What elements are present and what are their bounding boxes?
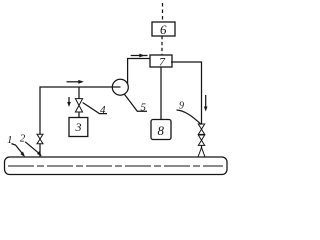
wire: branch down to valve 4: [78, 87, 80, 99]
box 6: [152, 22, 175, 36]
wire: left riser upper segment: [40, 87, 121, 134]
svg-text:5: 5: [141, 101, 147, 113]
leader line for label 5: [124, 94, 147, 112]
svg-text:9: 9: [179, 101, 184, 112]
leader line for label 1: [12, 144, 26, 157]
valve 4: [75, 99, 82, 112]
valve 2: [37, 134, 43, 144]
wire: box 7 to right riser: [171, 62, 202, 124]
svg-text:1: 1: [7, 134, 13, 146]
leader line for label 2: [25, 142, 42, 156]
valve 9 lower: [198, 135, 204, 145]
leader line for label 9: [177, 110, 202, 125]
dashed signal line between box 6 and box 7: [161, 36, 163, 55]
box 7: [150, 55, 172, 67]
wire: left riser lower segment: [39, 144, 41, 157]
svg-text:6: 6: [160, 22, 167, 37]
valve 9 upper: [198, 124, 204, 134]
leader line for label 4: [83, 103, 107, 114]
wire: valve stack to nozzle: [201, 145, 203, 148]
pipe P1 (main pipeline): [5, 157, 228, 175]
flow arrow A1 (rightward, above main line): [67, 80, 84, 84]
svg-text:2: 2: [20, 133, 26, 145]
svg-text:4: 4: [100, 104, 106, 116]
flow arrow A4 (downward, right of right riser): [204, 95, 208, 112]
wire: circle to upper line: [128, 59, 150, 84]
svg-text:7: 7: [159, 55, 166, 69]
svg-text:8: 8: [158, 123, 165, 138]
wire: box 7 down to box 8: [160, 67, 162, 120]
flow arrow A3 (rightward, above line into box 7): [131, 54, 148, 58]
svg-text:3: 3: [75, 120, 82, 134]
flow arrow A2 (downward, left of valve 4): [67, 97, 71, 107]
dashed signal line above box 6: [162, 3, 164, 22]
wire: valve 4 to box 3: [78, 112, 80, 118]
pump/circle 5: [112, 79, 128, 95]
nozzle triangle at pipe inlet: [198, 148, 205, 158]
box 3: [69, 118, 88, 137]
pipe axis (dash-dot center line): [8, 165, 223, 167]
box 8: [151, 120, 171, 140]
